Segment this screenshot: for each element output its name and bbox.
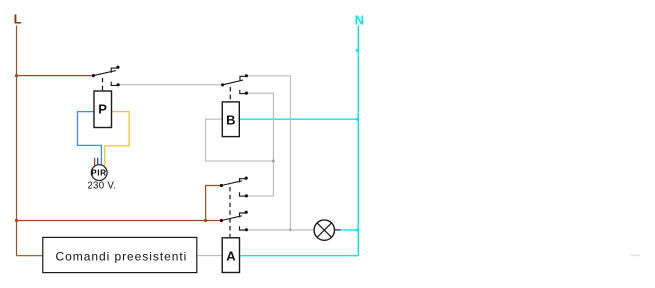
junction L / P branch bbox=[15, 74, 18, 77]
svg-text:Comandi preesistenti: Comandi preesistenti bbox=[56, 249, 188, 263]
relay B box bbox=[222, 102, 239, 137]
relay P box bbox=[94, 91, 112, 128]
PIR sensor circle bbox=[91, 165, 107, 181]
mech link P dashed bbox=[102, 78, 104, 91]
wire PIR brown stub bbox=[94, 158, 96, 166]
Comandi preesistenti box bbox=[43, 237, 197, 272]
wire L to switch A2 common bbox=[16, 220, 221, 222]
junction L / A branch bbox=[15, 219, 18, 222]
svg-text:P: P bbox=[98, 102, 107, 117]
wire N bottom to box A bbox=[240, 255, 359, 257]
switch A1 (changeover) bbox=[221, 179, 245, 196]
switch P (changeover) bbox=[93, 68, 117, 85]
svg-text:B: B bbox=[226, 112, 235, 127]
relay A box bbox=[222, 238, 239, 273]
switch B NO contact dot bbox=[245, 74, 248, 77]
wire relay P coil yellow bbox=[105, 112, 129, 167]
wire lamp right stub bbox=[335, 229, 341, 231]
switch B NC contact dot bbox=[245, 92, 248, 95]
wire switch A2 NC contact to lamp bbox=[246, 229, 314, 231]
switch A2 NC contact dot bbox=[245, 228, 248, 231]
wire relay B coil to N bbox=[239, 118, 358, 120]
switch P NO contact dot bbox=[116, 66, 119, 69]
junction lamp / N bbox=[356, 229, 359, 232]
mech link A dashed bbox=[229, 187, 231, 237]
lamp symbol bbox=[314, 220, 334, 240]
junction A1 branch bbox=[204, 219, 207, 222]
wire switch B NO contact to lamp line bbox=[246, 76, 290, 230]
junction B coil / N bbox=[356, 118, 359, 121]
switch P pivot dot bbox=[92, 74, 95, 77]
mech link B dashed bbox=[229, 87, 231, 101]
wire PIR navy stub bbox=[97, 158, 99, 166]
junction at lamp line bbox=[289, 228, 292, 231]
svg-text:N: N bbox=[355, 12, 364, 27]
junction nub on N bus bbox=[356, 49, 359, 52]
wire Comandi box to box A bbox=[197, 255, 222, 257]
switch A1 NO contact dot bbox=[245, 177, 248, 180]
wire L to switch P common bbox=[16, 75, 93, 77]
wire relay B coil left terminal bbox=[206, 119, 274, 161]
svg-text:A: A bbox=[226, 248, 236, 263]
wire L to Comandi box bbox=[17, 255, 44, 257]
switch A1 pivot dot bbox=[220, 184, 223, 187]
svg-text:PIR: PIR bbox=[91, 168, 106, 178]
wire switch B NC contact to switch A1 NC contact bbox=[246, 93, 273, 196]
switch B pivot dot bbox=[221, 83, 224, 86]
junction B coil / contact wire bbox=[272, 160, 275, 163]
wire relay P coil blue bbox=[78, 112, 102, 166]
wire switch P NC contact to switch B common bbox=[120, 84, 223, 86]
wire N vertical bus bbox=[357, 26, 359, 256]
stray faint mark bottom right bbox=[631, 254, 640, 256]
switch A2 pivot dot bbox=[220, 219, 223, 222]
wire lamp to N bbox=[341, 229, 359, 231]
switch P NC contact dot bbox=[117, 83, 120, 86]
wire branch to switch A1 common bbox=[206, 186, 222, 221]
switch A1 NC contact dot bbox=[245, 194, 248, 197]
wire L vertical bus bbox=[16, 26, 18, 256]
switch A2 NO contact dot bbox=[245, 211, 248, 214]
svg-text:L: L bbox=[14, 12, 22, 27]
switch B (changeover) bbox=[223, 76, 246, 93]
svg-text:230 V.: 230 V. bbox=[87, 180, 116, 191]
switch A2 (changeover) bbox=[221, 213, 245, 230]
